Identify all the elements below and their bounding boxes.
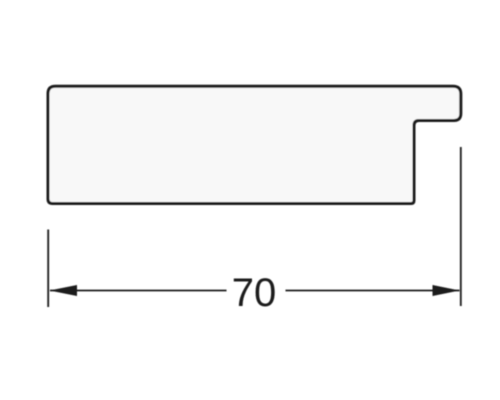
left extension line [47,230,49,308]
right extension line [460,147,462,306]
svg-text:70: 70 [232,271,277,315]
left arrowhead [50,285,78,296]
moulding profile outline [48,86,461,203]
dimension line left segment [50,290,227,292]
dimension line right segment [286,290,460,292]
right arrowhead [433,285,460,296]
